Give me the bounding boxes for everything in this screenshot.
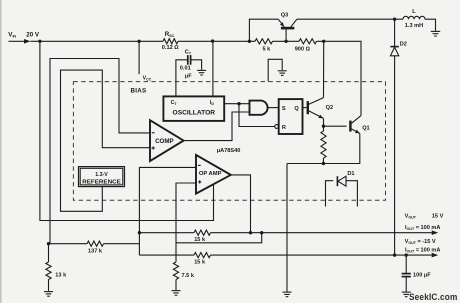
- transistor Q1: [350, 116, 361, 134]
- svg-text:IOUT = 100 mA: IOUT = 100 mA: [405, 225, 440, 231]
- wire VCC bias stub: [138, 41, 140, 74]
- svg-text:μF: μF: [185, 73, 192, 79]
- wire Q3 collector line: [297, 18, 403, 20]
- svg-text:7.5 k: 7.5 k: [182, 273, 195, 279]
- label 15 k upper: [194, 237, 206, 243]
- wire oscillator output: [224, 103, 249, 105]
- svg-text:15 k: 15 k: [194, 237, 206, 243]
- resistor Q1 base bleed: [321, 126, 326, 163]
- label OSCILLATOR: [173, 109, 216, 116]
- node Q3 emitter branch junction: [248, 40, 251, 43]
- wire Q2 emitter to Q1 base: [324, 125, 347, 127]
- label D2: [400, 42, 407, 48]
- latch box S-R: [279, 99, 303, 134]
- label 0.12 ohm: [162, 45, 179, 51]
- svg-text:Q2: Q2: [326, 105, 333, 111]
- svg-text:L: L: [412, 9, 416, 15]
- label pin CT: [171, 100, 178, 106]
- wire Q1 emitter down and across: [287, 133, 360, 163]
- inductor L: [403, 16, 425, 19]
- label D1: [347, 171, 354, 177]
- ground of 100uF: [402, 292, 411, 297]
- resistor 137k: [87, 241, 104, 246]
- oscillator box U1: [163, 96, 224, 121]
- svg-text:REFERENCE: REFERENCE: [82, 179, 121, 185]
- ground of CT: [197, 70, 206, 75]
- wire comparator minus loop to divider node: [50, 59, 150, 244]
- label 5 k: [263, 47, 272, 53]
- label 15 k lower: [194, 260, 206, 266]
- label COMP: [155, 138, 174, 145]
- label REFERENCE: [82, 179, 121, 185]
- arrowhead -15V output: [432, 253, 439, 258]
- label VOUT -15V: [405, 239, 436, 245]
- node VIN input terminal with arrow: [9, 39, 31, 44]
- wire D1 left leg: [326, 181, 334, 207]
- svg-text:CT: CT: [185, 49, 192, 55]
- resistor 15k input: [194, 253, 211, 258]
- node D2 junction: [393, 18, 396, 21]
- arrowhead +15V output: [432, 230, 439, 235]
- label 7.5 k: [182, 273, 195, 279]
- resistor 7.5k: [173, 262, 178, 290]
- comparator COMP: [150, 120, 184, 161]
- wire op-amp minus input: [139, 167, 196, 255]
- wire oscillator to R input: [239, 104, 275, 127]
- watermark SeekIC.com: [409, 292, 458, 303]
- label uF: [185, 73, 192, 79]
- label VCC: [143, 76, 152, 82]
- node VIN junction: [38, 40, 41, 43]
- wire divider node to 137k: [49, 243, 88, 245]
- svg-text:D2: D2: [400, 42, 407, 48]
- label 0.01: [180, 66, 191, 72]
- wire CT cap left lead and oscillator pin stub: [176, 60, 187, 97]
- op-amp U2: [196, 155, 231, 194]
- diode D2: [390, 47, 398, 56]
- wire Ipk pin stub: [212, 41, 214, 96]
- wire Q2 emitter down: [323, 118, 325, 126]
- wire op-amp output: [231, 175, 251, 233]
- label OP AMP: [199, 171, 222, 177]
- wire op-amp plus input: [176, 183, 196, 262]
- node oscillator Ipk junction: [211, 39, 214, 42]
- svg-text:Q1: Q1: [362, 125, 369, 131]
- wire AND output to S: [268, 107, 279, 109]
- label VIN 20 V: [8, 32, 40, 39]
- ground of 13k: [44, 292, 53, 297]
- svg-text:1.3-V: 1.3-V: [95, 172, 108, 178]
- label 1.3 mH: [405, 23, 423, 29]
- resistor 5k: [255, 39, 273, 44]
- wire -15V rail left: [139, 254, 194, 256]
- gate AND: [250, 101, 268, 115]
- wire VIN to op-amp supply pin: [40, 41, 214, 220]
- svg-text:ID: ID: [210, 100, 214, 106]
- ground of IC pin: [278, 71, 287, 76]
- node op-amp minus rail junction: [138, 231, 141, 234]
- wire +15V output rail left: [139, 232, 194, 234]
- label BIAS: [131, 87, 147, 94]
- ground of 7.5k: [172, 291, 181, 296]
- label Q2: [326, 105, 333, 111]
- svg-text:CT: CT: [171, 100, 178, 106]
- label R: [282, 125, 286, 131]
- svg-text:900 Ω: 900 Ω: [295, 47, 311, 53]
- wire +15V output rail right: [211, 232, 432, 234]
- node op-amp output junction: [249, 231, 252, 234]
- capacitor 100uF: [402, 255, 411, 292]
- wire -15V rail right: [211, 254, 432, 256]
- node +15V sense junction: [260, 231, 263, 234]
- svg-text:137 k: 137 k: [88, 249, 103, 255]
- wire D2 top: [394, 19, 396, 46]
- wire op-amp plus divider tap: [176, 233, 262, 243]
- svg-text:Q: Q: [294, 106, 299, 112]
- label Q1: [362, 125, 369, 131]
- resistor 15k feedback: [194, 230, 211, 235]
- svg-text:VCC: VCC: [143, 76, 152, 82]
- svg-text:SeekIC.com: SeekIC.com: [409, 292, 458, 303]
- label VOUT 15V: [405, 213, 444, 219]
- label 13 k: [55, 272, 67, 278]
- wire inductor to ground: [425, 19, 436, 31]
- svg-text:COMP: COMP: [155, 138, 174, 145]
- reference box 1.3-V: [79, 167, 125, 187]
- label L: [412, 9, 416, 15]
- resistor 900 ohm: [299, 39, 317, 44]
- label CT: [185, 49, 192, 55]
- node filter cap junction: [405, 253, 408, 256]
- wire top rail segment 3: [273, 40, 300, 42]
- diode D1: [337, 176, 346, 186]
- svg-text:OSCILLATOR: OSCILLATOR: [173, 109, 216, 116]
- svg-text:OP AMP: OP AMP: [199, 171, 222, 177]
- node divider 13k 137k junction: [47, 242, 50, 245]
- capacitor CT: [188, 55, 191, 65]
- svg-text:Q3: Q3: [281, 12, 288, 18]
- resistor RSC: [163, 39, 178, 44]
- label IOUT2 100mA: [405, 247, 440, 253]
- label 137 k: [88, 249, 103, 255]
- label RSC: [165, 31, 175, 38]
- svg-text:0.12 Ω: 0.12 Ω: [162, 45, 179, 51]
- node VCC junction: [137, 40, 140, 43]
- op-amp plus sign: [198, 180, 201, 183]
- ground after inductor: [431, 31, 440, 36]
- transistor Q2: [308, 98, 324, 119]
- wire CT cap right lead to ground: [191, 60, 202, 70]
- latch R inversion bubble: [275, 125, 279, 129]
- svg-text:1.3 mH: 1.3 mH: [405, 23, 423, 29]
- wire comparator output to AND gate: [184, 112, 250, 141]
- svg-text:S: S: [282, 106, 286, 112]
- wire 137k to op-amp minus node: [104, 243, 140, 245]
- svg-text:13 k: 13 k: [55, 272, 67, 278]
- transistor Q3: [278, 19, 297, 41]
- scan edge artifact left: [0, 0, 2, 303]
- node Q1 emitter resistor junction: [322, 162, 325, 165]
- svg-text:RSC: RSC: [165, 31, 175, 38]
- svg-text:VOUT: VOUT: [405, 213, 417, 219]
- wire switch node to ground: [286, 164, 288, 292]
- node Q2 emitter junction: [322, 125, 325, 128]
- label Q: [294, 106, 299, 112]
- wire top rail segment 2: [178, 40, 255, 42]
- svg-text:100 μF: 100 μF: [413, 273, 431, 279]
- label uA78S40: [217, 148, 241, 154]
- label 1.3-V: [95, 172, 108, 178]
- svg-text:20 V: 20 V: [26, 32, 40, 39]
- svg-text:5 k: 5 k: [263, 47, 272, 53]
- wire Q2 collector up: [323, 41, 325, 97]
- node Q2 collector junction: [322, 40, 325, 43]
- wire D1 right leg: [346, 181, 357, 207]
- svg-text:VOUT = -15 V: VOUT = -15 V: [405, 239, 436, 245]
- wire reference output loop to comparator plus input: [61, 70, 151, 211]
- node D2 cathode rail junction: [393, 253, 396, 256]
- svg-text:15 k: 15 k: [194, 260, 206, 266]
- svg-text:μA78S40: μA78S40: [217, 148, 241, 154]
- node Q3 base junction: [284, 40, 287, 43]
- node oscillator output junction: [237, 102, 240, 105]
- IC boundary dashed box uA78S40: [73, 82, 385, 201]
- wire top rail segment 1: [31, 40, 164, 42]
- svg-text:D1: D1: [347, 171, 354, 177]
- wire D2 to -15V rail: [394, 56, 396, 255]
- wire top rail segment 4 to Q1 collector corner: [317, 41, 362, 115]
- wire Q output to Q2 base: [303, 107, 307, 109]
- resistor 13k: [46, 244, 51, 291]
- label 100 uF: [413, 273, 431, 279]
- label S: [282, 106, 286, 112]
- label Q3: [281, 12, 288, 18]
- comparator minus sign: [152, 132, 155, 134]
- svg-text:R: R: [282, 125, 286, 131]
- svg-text:15 V: 15 V: [432, 213, 444, 219]
- svg-text:VIN: VIN: [8, 32, 16, 39]
- label IOUT 100mA: [405, 225, 440, 231]
- ground of switch return: [283, 292, 292, 297]
- comparator plus sign: [152, 146, 155, 149]
- label pin Ipk: [210, 100, 214, 106]
- svg-text:BIAS: BIAS: [131, 87, 147, 94]
- wire Q3 emitter feed: [249, 19, 278, 41]
- svg-text:IOUT = 100 mA: IOUT = 100 mA: [405, 247, 440, 253]
- label 900 ohm: [295, 47, 311, 53]
- svg-text:0.01: 0.01: [180, 66, 191, 72]
- op-amp minus sign: [198, 164, 201, 166]
- wire IC ground pin bracket: [268, 59, 282, 81]
